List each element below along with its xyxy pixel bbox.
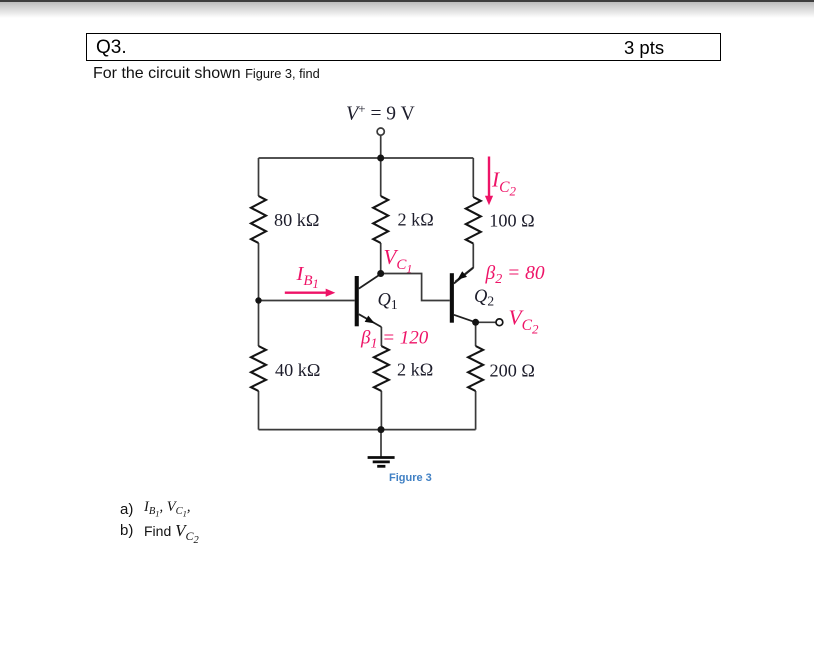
label beta1 = 120	[360, 328, 429, 352]
label VC2	[509, 306, 539, 337]
wire left column upper	[258, 158, 260, 196]
label 40 kOhm	[275, 360, 320, 380]
node base junction	[255, 297, 261, 303]
current arrow IB1	[285, 289, 336, 297]
svg-text:200 Ω: 200 Ω	[490, 361, 535, 381]
svg-text:VC1: VC1	[384, 245, 413, 275]
resistor 40 kOhm	[251, 346, 266, 391]
transistor Q1	[355, 274, 382, 327]
label 2 kOhm emitter	[397, 359, 433, 379]
svg-text:VC2: VC2	[509, 306, 539, 337]
wire Q2 collector to VC2 terminal	[476, 321, 496, 323]
prompt line	[93, 67, 320, 80]
node VC1 junction	[377, 270, 384, 277]
wire left column lower	[258, 391, 260, 430]
Q3 header box	[86, 33, 721, 61]
ground	[368, 458, 395, 467]
svg-text:Q1: Q1	[378, 291, 398, 313]
wire top rail	[259, 157, 474, 159]
label 200 Ohm	[490, 361, 535, 381]
wire left column middle	[258, 243, 260, 346]
top dark bar with gradient fade	[0, 0, 814, 2]
wire mid column to VC1 node	[380, 243, 382, 274]
label Q1	[378, 291, 398, 313]
label 100 Ohm	[489, 211, 534, 231]
resistor 100 Ohm	[466, 197, 481, 244]
wire ground stub	[380, 430, 382, 457]
svg-text:100 Ω: 100 Ω	[489, 211, 534, 231]
wire Q1 emitter column	[380, 327, 382, 346]
resistor 2 kOhm emitter	[374, 346, 389, 391]
label Q2	[474, 287, 494, 309]
wire VC1 node to Q2 base (jog)	[381, 274, 450, 301]
figure caption	[389, 472, 432, 484]
resistor 2 kOhm collector	[373, 196, 388, 243]
svg-text:Q2: Q2	[474, 287, 494, 309]
svg-text:2 kΩ: 2 kΩ	[397, 359, 433, 379]
svg-text:2 kΩ: 2 kΩ	[398, 209, 434, 229]
label IB1	[296, 263, 319, 291]
resistor 80 kOhm	[251, 196, 266, 243]
current arrow IC2	[485, 157, 493, 206]
label 2 kOhm collector	[398, 209, 434, 229]
transistor Q2	[450, 268, 476, 323]
question list	[120, 502, 133, 517]
node V+ terminal	[377, 128, 384, 135]
wire base rail	[259, 300, 355, 302]
svg-text:IB1: IB1	[296, 263, 319, 291]
wire mid column upper	[380, 158, 382, 196]
node VC2 terminal	[496, 319, 503, 326]
label 80 kOhm	[274, 210, 319, 230]
wire right column upper	[472, 158, 474, 197]
resistor 200 Ohm	[468, 346, 483, 391]
node top rail junction	[377, 155, 384, 162]
svg-text:β1 = 120: β1 = 120	[360, 328, 429, 352]
svg-text:V+ = 9 V: V+ = 9 V	[346, 101, 415, 125]
wire bottom rail	[259, 429, 476, 431]
label V+ = 9 V	[346, 101, 415, 125]
svg-text:IC2: IC2	[491, 168, 517, 199]
svg-text:80 kΩ: 80 kΩ	[274, 210, 319, 230]
svg-text:40 kΩ: 40 kΩ	[275, 360, 320, 380]
wire 200 ohm to rail	[475, 391, 477, 430]
label VC1	[384, 245, 413, 275]
label beta2 = 80	[485, 263, 545, 287]
wire right column to Q2 emitter	[455, 244, 473, 282]
wire Q1 emitter resistor to rail	[380, 391, 382, 430]
label IC2	[491, 168, 517, 199]
node Q2 collector junction	[472, 319, 479, 326]
wire Q2 collector down	[475, 322, 477, 346]
wire V+ stub	[380, 135, 382, 158]
node bottom rail junction	[378, 426, 385, 433]
svg-text:β2 = 80: β2 = 80	[485, 263, 545, 287]
